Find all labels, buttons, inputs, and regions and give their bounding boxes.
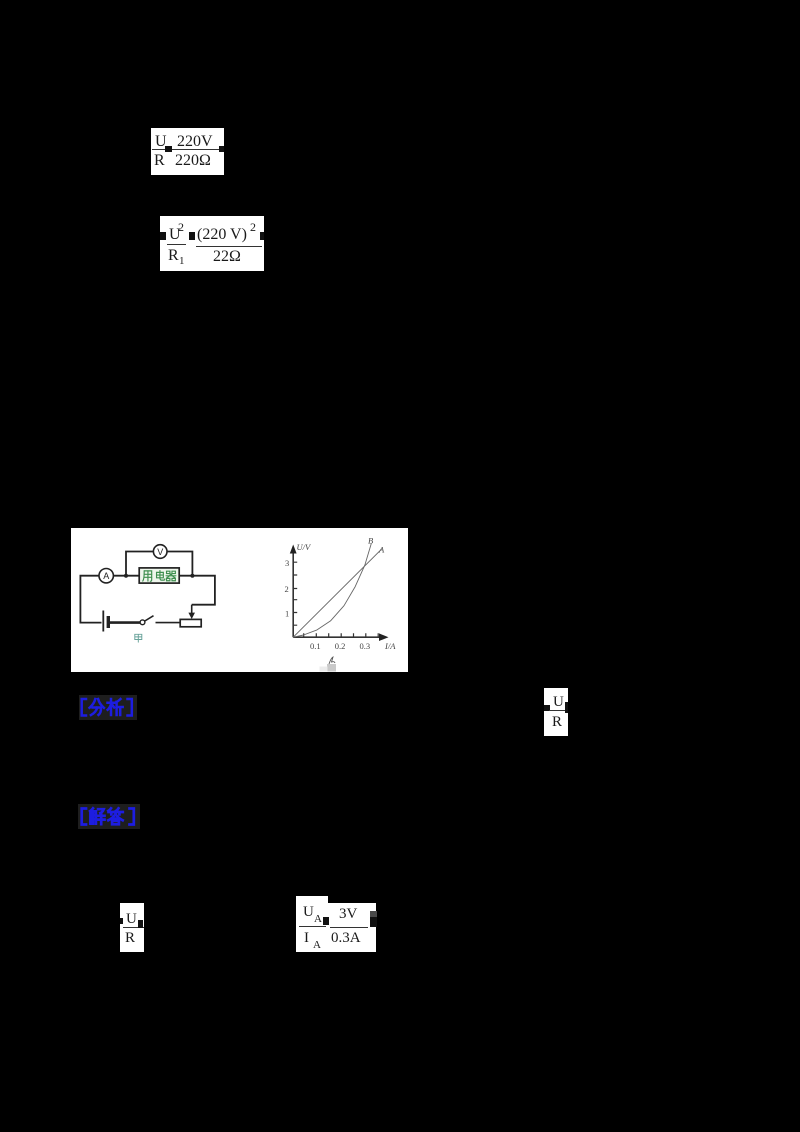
wire battery to switch	[108, 621, 140, 624]
bracket 】	[128, 699, 132, 716]
voltmeter V1	[153, 545, 167, 559]
node left junction	[124, 574, 128, 578]
y ticks	[293, 562, 297, 625]
denominator 220Ω	[175, 153, 211, 169]
x ticks	[304, 633, 379, 637]
wire: A left to corner and down to battery	[80, 576, 101, 623]
I_A	[304, 931, 309, 946]
wire: load box to right junction and right edge	[179, 576, 215, 605]
svg-text:U/V: U/V	[297, 542, 313, 552]
formula image 1: I = U/R = 220V/220Ω	[151, 128, 224, 175]
svg-text:0.1: 0.1	[310, 641, 321, 651]
label 【解答】	[78, 804, 140, 829]
glyph 析	[108, 699, 123, 715]
svg-text:B: B	[368, 536, 373, 546]
formula image 3: = U/R (clipped)	[544, 688, 568, 736]
equals block left	[160, 232, 166, 240]
formula image 5: U_A/I_A = 3V/0.3A	[296, 896, 328, 952]
battery cell	[102, 611, 104, 632]
svg-text:0.3: 0.3	[360, 641, 371, 651]
fraction bar 2	[196, 246, 262, 247]
rheostat slider arrow	[191, 605, 193, 614]
graph axes	[293, 636, 383, 638]
fraction bar	[152, 149, 223, 150]
bar right	[330, 927, 368, 928]
glyph 器	[166, 571, 176, 581]
svg-text:0.2: 0.2	[335, 641, 346, 651]
bracket 【	[82, 699, 86, 716]
curve B	[293, 544, 371, 638]
y-axis arrowhead	[290, 545, 297, 554]
bracket 】	[130, 809, 134, 825]
svg-text:1: 1	[285, 609, 289, 619]
ammeter A1	[99, 569, 113, 583]
svg-text:3: 3	[285, 558, 289, 568]
right equals stub	[260, 232, 264, 240]
label 【分析】	[79, 695, 137, 720]
svg-text:2: 2	[285, 584, 289, 594]
glyph 分	[90, 699, 104, 715]
svg-text:I/A: I/A	[384, 641, 396, 651]
right dark block	[370, 911, 377, 917]
glyph 用	[143, 571, 152, 581]
rheostat R2	[180, 619, 201, 626]
numerator (220 V)^2	[197, 227, 247, 243]
equals	[323, 917, 329, 925]
fraction bar 1	[167, 244, 186, 245]
switch S	[140, 620, 145, 625]
bar left	[299, 926, 326, 927]
right equals stub	[219, 146, 224, 152]
denominator R1	[168, 248, 179, 264]
voltmeter branch wires	[126, 552, 192, 576]
denominator R	[154, 153, 165, 169]
figure panel: circuit 甲 + graph 乙	[71, 528, 408, 672]
svg-text:A: A	[103, 571, 109, 581]
load box 用电器	[139, 568, 179, 583]
numerator U	[155, 134, 167, 150]
label 甲	[135, 634, 142, 642]
equals block mid	[189, 232, 195, 240]
x-axis arrowhead	[379, 633, 389, 641]
bracket 【	[82, 809, 86, 825]
svg-text:A: A	[378, 545, 385, 555]
glyph 电	[157, 571, 165, 581]
label 乙 partial with gray blob	[327, 664, 336, 672]
svg-text:V: V	[157, 547, 163, 557]
formula image 4: = U/R (clipped)	[120, 903, 144, 952]
numerator U^2	[169, 227, 181, 243]
U_A	[303, 905, 314, 920]
line A	[293, 549, 382, 638]
node right junction	[190, 574, 194, 578]
denominator 22Ω	[213, 249, 241, 265]
wire: A to load box	[114, 575, 140, 577]
glyph 解	[90, 808, 104, 824]
formula image 2: = U²/R₁ = (220 V)²/22Ω	[160, 216, 264, 271]
equals block	[165, 146, 172, 152]
numerator 220V	[177, 134, 213, 150]
3V	[339, 907, 357, 922]
wire switch to rheostat	[156, 622, 181, 624]
glyph 答	[108, 808, 123, 824]
0.3A	[331, 931, 361, 946]
